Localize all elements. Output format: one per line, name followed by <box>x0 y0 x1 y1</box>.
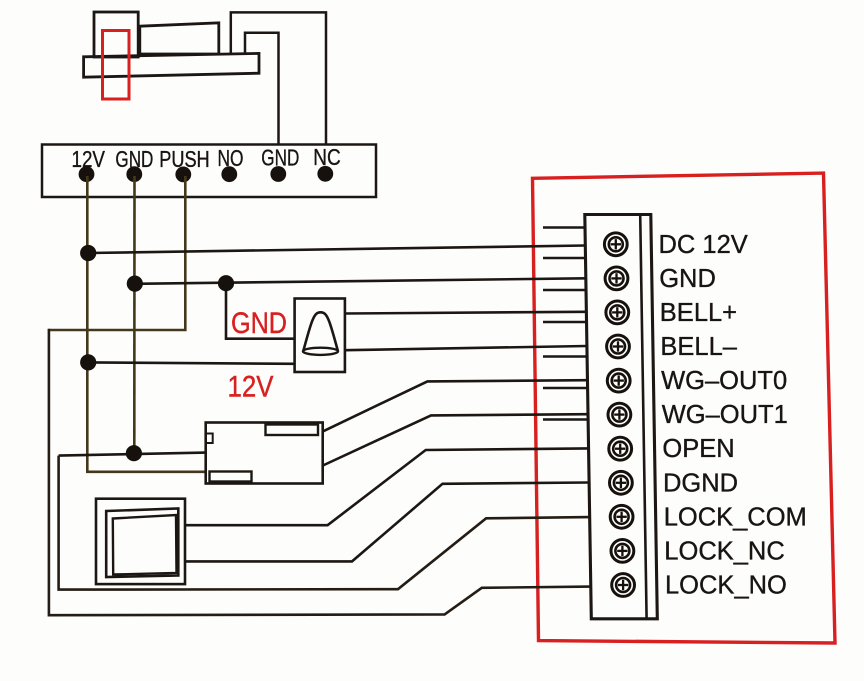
svg-text:OPEN: OPEN <box>662 435 734 463</box>
junction dot bell-GND <box>218 275 234 291</box>
svg-text:LOCK_NO: LOCK_NO <box>665 572 787 600</box>
card reader bottom-left slot <box>210 472 252 482</box>
wire PUSH vertical <box>49 176 185 330</box>
screw DGND <box>610 471 633 494</box>
wire exit button to OPEN <box>185 448 588 525</box>
svg-text:DC 12V: DC 12V <box>659 231 748 259</box>
svg-text:GND: GND <box>659 265 716 293</box>
screw LOCK_NC <box>611 540 634 563</box>
strip tick 1 <box>543 226 585 228</box>
wire 12V vertical <box>87 176 206 472</box>
terminal dot NC <box>317 166 333 182</box>
screw DC12V <box>604 233 627 256</box>
svg-text:BELL–: BELL– <box>660 333 737 361</box>
wire lock to GND <box>245 33 279 175</box>
wire 12V to bell <box>88 362 295 363</box>
screw BELL- <box>607 335 630 358</box>
svg-text:DGND: DGND <box>663 469 738 497</box>
svg-text:LOCK_NC: LOCK_NC <box>664 537 784 565</box>
svg-text:BELL+: BELL+ <box>660 299 737 327</box>
svg-text:LOCK_COM: LOCK_COM <box>664 503 807 531</box>
exit button outer square <box>96 499 185 584</box>
electric lock base bar <box>84 53 259 77</box>
wire GND to reader <box>59 453 206 456</box>
strip tick 5 <box>543 355 587 357</box>
wire lock to NC <box>231 12 326 174</box>
screw BELL+ <box>606 301 629 324</box>
svg-text:12V: 12V <box>228 371 274 404</box>
screw GND <box>605 267 628 290</box>
strip tick 6 <box>543 387 588 389</box>
junction dot GND-reader <box>126 445 142 461</box>
wire GND branch to LOCK_COM <box>59 456 590 590</box>
screw WG-OUT0 <box>607 369 630 392</box>
junction dot 12V-bell <box>80 354 96 370</box>
access control board (red outline) <box>533 173 836 643</box>
wire DC12V feed <box>88 246 586 254</box>
exit button inner square 2 <box>113 515 177 575</box>
wire reader WG-OUT1 <box>322 414 588 466</box>
terminal strip inner line <box>640 215 646 619</box>
wire GND feed <box>135 278 587 284</box>
terminal dot GND2 <box>270 166 286 182</box>
screw LOCK_COM <box>610 505 633 528</box>
card reader left tab <box>206 434 213 444</box>
red highlight rectangle on lock <box>103 31 130 100</box>
electric lock left block <box>94 12 138 57</box>
card reader top-right slot <box>266 425 319 436</box>
terminal dot GND <box>126 166 142 182</box>
strip tick 3 <box>543 289 586 291</box>
screw OPEN <box>609 437 632 460</box>
electric lock middle block <box>140 23 219 54</box>
junction dot 12V-DC12V <box>80 245 96 261</box>
doorbell icon <box>303 312 338 351</box>
terminal dot 12V <box>79 166 95 182</box>
wire bell GND branch <box>226 283 295 339</box>
wire BELL- <box>345 346 587 350</box>
terminal dot NO <box>221 166 237 182</box>
strip tick 4 <box>543 321 587 323</box>
doorbell box <box>295 299 345 373</box>
doorbell base ellipse <box>303 348 338 355</box>
wire reader WG-OUT0 <box>322 380 587 432</box>
wire BELL+ <box>345 312 586 314</box>
wire exit button to DGND <box>185 483 589 562</box>
power supply terminal box <box>42 145 376 198</box>
strip tick 7 <box>543 418 588 420</box>
wire GND vertical <box>133 176 136 453</box>
exit button inner square <box>106 509 178 578</box>
svg-text:GND: GND <box>231 307 287 340</box>
svg-text:WG–OUT0: WG–OUT0 <box>661 367 787 395</box>
screw WG-OUT1 <box>608 403 631 426</box>
junction dot GND-feed <box>127 276 143 292</box>
terminal dot PUSH <box>175 167 191 183</box>
terminal strip body <box>585 215 658 619</box>
strip tick 2 <box>543 257 586 259</box>
card reader box <box>206 423 323 484</box>
wire PUSH run to LOCK_NO <box>49 329 591 616</box>
screw LOCK_NO <box>612 574 635 597</box>
svg-text:WG–OUT1: WG–OUT1 <box>662 401 788 429</box>
